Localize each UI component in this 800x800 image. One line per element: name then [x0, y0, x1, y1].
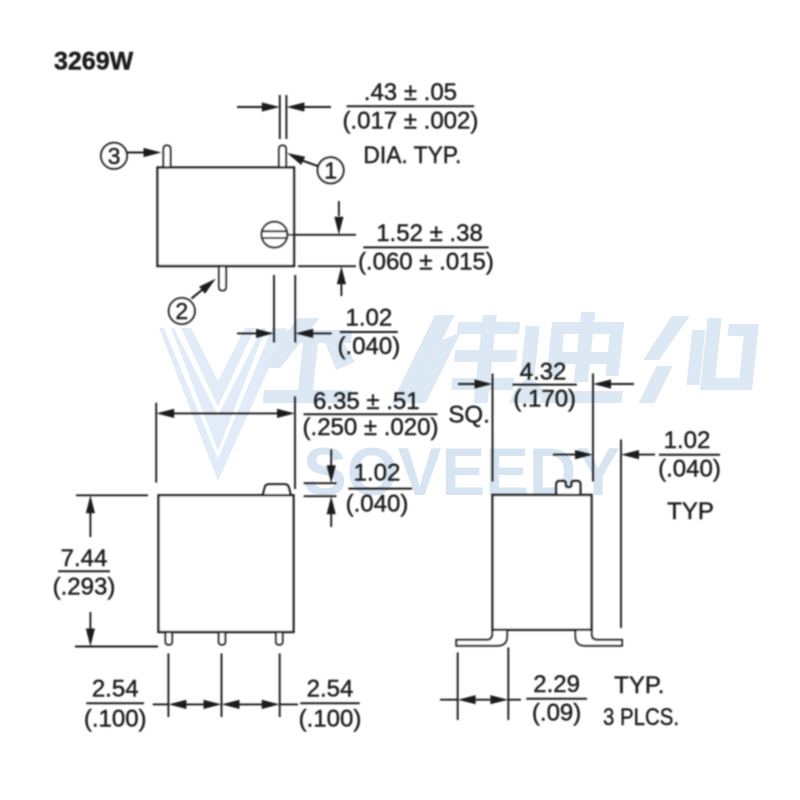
- svg-text:(.040): (.040): [338, 333, 401, 360]
- svg-text:(.017 ± .002): (.017 ± .002): [342, 107, 478, 134]
- svg-text:(.100): (.100): [299, 706, 362, 733]
- svg-text:6.35 ± .51: 6.35 ± .51: [313, 388, 420, 415]
- svg-text:3 PLCS.: 3 PLCS.: [603, 704, 679, 731]
- svg-text:(.100): (.100): [84, 706, 147, 733]
- svg-text:3: 3: [108, 143, 121, 169]
- svg-text:2.29: 2.29: [533, 671, 580, 698]
- svg-text:2: 2: [175, 298, 188, 324]
- svg-text:.43 ± .05: .43 ± .05: [364, 79, 457, 106]
- svg-text:(.170): (.170): [513, 386, 576, 413]
- svg-text:1.02: 1.02: [354, 460, 401, 487]
- svg-text:DIA. TYP.: DIA. TYP.: [363, 142, 461, 169]
- svg-text:TYP: TYP: [667, 498, 714, 525]
- svg-text:(.293): (.293): [53, 574, 116, 601]
- svg-text:SQ.: SQ.: [448, 402, 489, 429]
- svg-text:(.060 ± .015): (.060 ± .015): [358, 248, 494, 275]
- svg-text:TYP.: TYP.: [614, 672, 664, 699]
- svg-text:(.250 ± .020): (.250 ± .020): [303, 414, 439, 441]
- svg-text:(.09): (.09): [532, 700, 581, 727]
- svg-text:(.040): (.040): [346, 491, 409, 518]
- svg-text:1.02: 1.02: [664, 427, 711, 454]
- svg-text:4.32: 4.32: [520, 359, 567, 386]
- svg-text:1.02: 1.02: [346, 305, 393, 332]
- svg-text:2.54: 2.54: [92, 676, 139, 703]
- svg-text:7.44: 7.44: [61, 545, 108, 572]
- svg-text:1: 1: [324, 158, 337, 184]
- svg-text:(.040): (.040): [658, 456, 721, 483]
- svg-text:2.54: 2.54: [307, 676, 354, 703]
- svg-text:1.52 ± .38: 1.52 ± .38: [376, 220, 483, 247]
- svg-text:3269W: 3269W: [54, 48, 134, 76]
